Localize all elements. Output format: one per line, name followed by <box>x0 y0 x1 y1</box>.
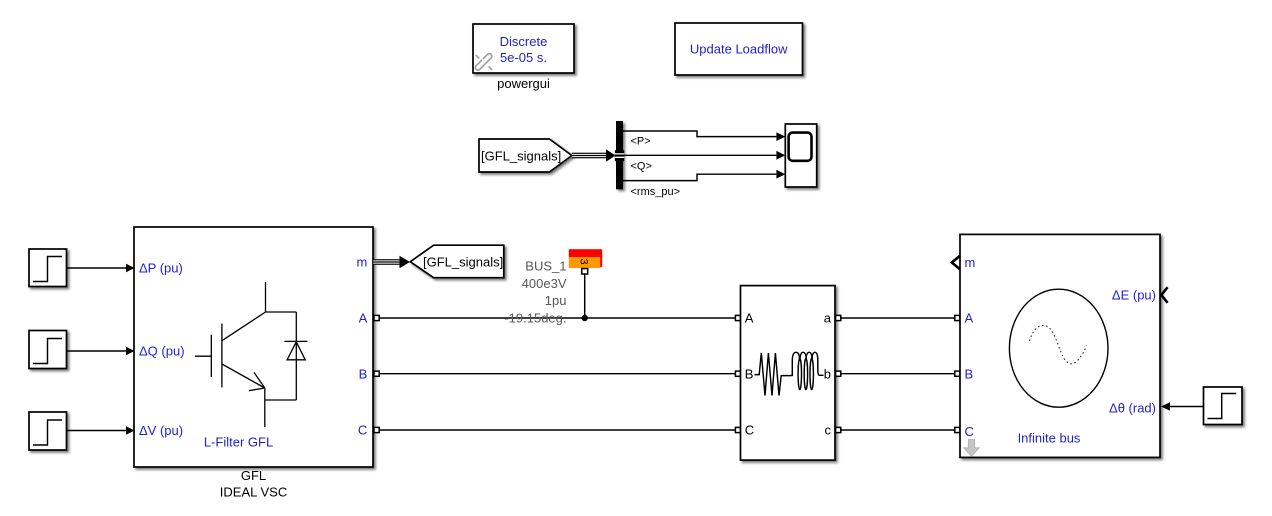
svg-text:C: C <box>965 424 974 439</box>
powergui block <box>473 24 574 73</box>
wire phase B GFL to branch <box>374 371 741 376</box>
port square BUS_1 <box>582 269 588 274</box>
svg-text:m: m <box>965 255 976 270</box>
svg-text:IDEAL VSC: IDEAL VSC <box>220 485 287 500</box>
svg-text:ΔQ (pu): ΔQ (pu) <box>139 344 185 359</box>
svg-text:A: A <box>359 311 368 326</box>
svg-text:Update Loadflow: Update Loadflow <box>690 42 788 57</box>
svg-text:Discrete: Discrete <box>500 34 548 49</box>
goto tag [GFL_signals] <box>410 245 504 278</box>
svg-text:[GFL_signals]: [GFL_signals] <box>481 148 561 163</box>
inductor L <box>791 352 823 389</box>
bus wire from tag to bus selector <box>572 149 616 161</box>
wire phase b branch to bus <box>836 371 960 376</box>
bus selector <box>615 121 624 189</box>
subsystem Infinite bus <box>960 234 1160 457</box>
svg-text:Infinite bus: Infinite bus <box>1018 430 1081 445</box>
svg-text:L-Filter GFL: L-Filter GFL <box>204 434 273 449</box>
wire Step1 to GFL dP <box>67 264 135 273</box>
junction node BUS_1 <box>582 315 588 321</box>
powergui broken-link icon <box>475 54 492 71</box>
resistor R <box>755 353 792 396</box>
wire bus tap <box>584 274 586 318</box>
svg-text:C: C <box>745 423 754 438</box>
svg-text:Δθ (rad): Δθ (rad) <box>1109 401 1156 416</box>
svg-text:3: 3 <box>578 259 590 265</box>
bus wire GFL m to goto tag <box>373 256 410 268</box>
step block Step3 <box>29 412 67 450</box>
three-phase branch block <box>741 286 836 461</box>
step block Step2 <box>29 331 67 369</box>
svg-text:A: A <box>965 311 974 326</box>
svg-text:b: b <box>824 366 831 381</box>
svg-text:powergui: powergui <box>497 76 550 91</box>
svg-text:ΔP (pu): ΔP (pu) <box>139 261 183 276</box>
svg-text:a: a <box>824 311 832 326</box>
step block Step_theta <box>1204 387 1243 425</box>
svg-text:B: B <box>745 366 754 381</box>
svg-text:<rms_pu>: <rms_pu> <box>631 186 681 198</box>
gray arrow <box>964 440 980 457</box>
svg-text:A: A <box>745 311 754 326</box>
svg-text:[GFL_signals]: [GFL_signals] <box>423 255 503 270</box>
wire phase c branch to bus <box>836 427 960 432</box>
svg-text:-19.15deg.: -19.15deg. <box>504 311 566 326</box>
step block Step1 <box>29 249 67 287</box>
wire Step3 to GFL dV <box>67 426 135 435</box>
svg-text:<P>: <P> <box>631 135 651 147</box>
svg-text:GFL: GFL <box>241 468 266 483</box>
svg-text:ΔV (pu): ΔV (pu) <box>139 423 183 438</box>
wire Step_theta to Infinite bus <box>1161 402 1204 411</box>
svg-text:c: c <box>825 423 832 438</box>
wire phase C GFL to branch <box>374 427 741 432</box>
scope block <box>785 124 816 187</box>
wire phase A GFL to branch <box>374 315 741 320</box>
value label BUS_1 <box>504 259 566 326</box>
svg-text:m: m <box>356 255 367 270</box>
wire phase a branch to bus <box>836 315 960 320</box>
wire Step2 to GFL dQ <box>67 347 135 356</box>
wire signal rms_pu <box>623 170 785 181</box>
svg-text:B: B <box>965 366 974 381</box>
from tag [GFL_signals] <box>479 139 572 172</box>
svg-text:BUS_1: BUS_1 <box>525 259 566 274</box>
bus icon BUS_1 <box>569 249 602 268</box>
input chevron dE <box>1161 287 1167 303</box>
diode D1 <box>265 312 308 400</box>
IGBT Q1 <box>195 282 266 427</box>
svg-text:1pu: 1pu <box>545 293 567 308</box>
svg-text:B: B <box>359 366 368 381</box>
svg-text:C: C <box>358 423 367 438</box>
output chevron m <box>952 256 960 269</box>
wire signal P <box>623 131 785 141</box>
block Update Loadflow <box>675 23 803 75</box>
subsystem GFL IDEAL VSC <box>134 227 373 467</box>
svg-text:<Q>: <Q> <box>631 160 652 172</box>
svg-text:5e-05 s.: 5e-05 s. <box>500 50 547 65</box>
svg-text:400e3V: 400e3V <box>522 276 567 291</box>
svg-text:ΔE (pu): ΔE (pu) <box>1112 288 1156 303</box>
sine source icon <box>1009 289 1108 407</box>
wire signal Q <box>623 151 785 160</box>
